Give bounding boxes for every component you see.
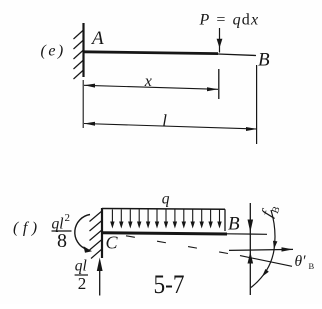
- beam level extension past B (f): [227, 233, 267, 236]
- wall hatching (f): [90, 211, 103, 259]
- beam AB (e) thick segment: [84, 52, 218, 54]
- svg-text:P = qdx: P = qdx: [199, 12, 260, 29]
- tangent line from C (solid end): [240, 256, 292, 267]
- svg-text:2: 2: [78, 274, 87, 293]
- distributed load right edge (f): [224, 209, 226, 231]
- wall hatching (e): [74, 30, 85, 80]
- arc arrowhead lower: [262, 269, 269, 277]
- svg-text:x: x: [144, 73, 152, 90]
- svg-text:q: q: [162, 191, 170, 208]
- svg-text:ql: ql: [75, 258, 87, 275]
- svg-text:A: A: [90, 28, 104, 49]
- beam AB (e) thin right segment: [218, 54, 256, 56]
- reaction arrow ql/2 (f): [99, 268, 101, 296]
- fixed wall (f): [101, 208, 103, 258]
- svg-text:5-7: 5-7: [154, 270, 185, 299]
- svg-text:(f): (f): [13, 220, 42, 237]
- svg-text:θ′: θ′: [295, 253, 307, 270]
- svg-text:B: B: [309, 261, 315, 271]
- svg-text:B: B: [258, 50, 270, 71]
- svg-text:C: C: [106, 233, 119, 253]
- arc arrowhead upper: [273, 241, 277, 249]
- distributed load arrows (f): [112, 210, 219, 224]
- moment arc arrow (f): [75, 215, 90, 250]
- svg-text:B: B: [228, 214, 240, 235]
- svg-text:2: 2: [65, 212, 71, 224]
- svg-text:(e): (e): [41, 43, 66, 60]
- horizontal reference line with arrow: [229, 249, 293, 250]
- angle arc at B: [251, 210, 275, 288]
- deflection arrow up: [248, 252, 254, 264]
- extension line left (e): [82, 80, 84, 128]
- svg-text:8: 8: [57, 230, 67, 252]
- extension line right (e): [256, 65, 258, 144]
- svg-text:l: l: [162, 111, 167, 130]
- load arrow P (e): [219, 28, 221, 53]
- dimension line l: [84, 124, 257, 130]
- tick at load point (e): [218, 69, 220, 99]
- dimension line x: [84, 85, 218, 89]
- fixed wall (e): [82, 23, 84, 77]
- beam CB (f): [102, 233, 227, 234]
- vertical measuring line at B: [249, 203, 251, 295]
- tangent line from C (dashed): [126, 236, 240, 256]
- deflection arrow down: [248, 220, 254, 233]
- distributed load top line (f): [102, 208, 225, 211]
- deflection label f_B (rotated): [257, 200, 283, 220]
